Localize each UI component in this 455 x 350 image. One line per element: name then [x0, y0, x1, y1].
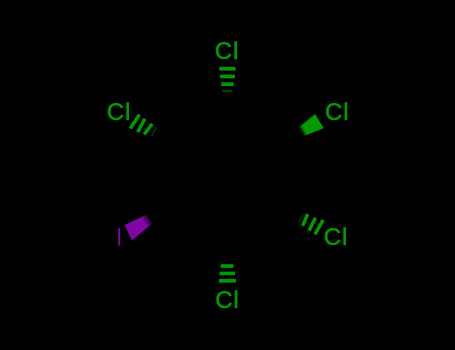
solid wedge bond to upper-right Cl [299, 114, 323, 136]
svg-text:Cl: Cl [215, 38, 239, 65]
atom label I (lower left, iodine) [118, 228, 120, 246]
hashed bond to lower-right Cl [299, 214, 324, 234]
svg-text:Cl: Cl [325, 99, 349, 126]
hashed bond to bottom Cl [219, 264, 236, 282]
solid wedge bond to iodine [125, 215, 153, 241]
svg-text:Cl: Cl [324, 224, 348, 251]
svg-text:Cl: Cl [107, 99, 131, 126]
svg-text:Cl: Cl [215, 287, 239, 314]
hashed bond to top Cl [219, 67, 235, 92]
hashed bond to upper-left Cl [130, 115, 156, 137]
